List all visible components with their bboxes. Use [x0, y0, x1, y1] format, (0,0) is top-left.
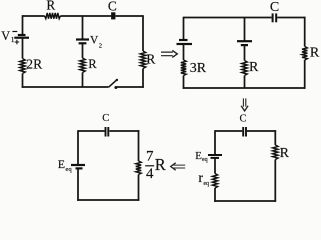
battery V2 [76, 38, 89, 40]
wire : circuit3 bottom [77, 199, 139, 201]
arrow implies (right) between circuit1 and circuit2 [161, 52, 173, 56]
wire : circuit3 right upper [138, 130, 140, 161]
arrow implies (down) below circuit2 [243, 98, 245, 106]
switch S (lever and contacts) [109, 80, 117, 87]
svg-text:eq: eq [65, 166, 72, 173]
wire : circuit2 top-right segment [277, 17, 305, 19]
wire : circuit2 right lower [304, 60, 306, 89]
resistor 7/4 R (circuit 3) [136, 161, 141, 175]
wire : circuit2 top-left segment [184, 17, 272, 19]
wire : circuit2 bottom [183, 87, 306, 89]
wire : circuit4 bottom [214, 200, 276, 202]
svg-text:4: 4 [146, 166, 154, 182]
battery Eeq (circuit 3) [71, 164, 85, 166]
wire : circuit3 right lower [138, 175, 140, 201]
svg-text:R: R [155, 155, 166, 174]
capacitor C (circuit 2) [272, 13, 274, 22]
wire : circuit1 middle mid [82, 43, 84, 58]
wire : circuit2 middle upper [244, 18, 246, 42]
battery E1 (circuit 2 left) [179, 39, 188, 41]
resistor R (right branch circuit 1) [140, 51, 145, 69]
wire : circuit3 left lower [77, 168, 79, 200]
wire : circuit2 right upper [304, 17, 306, 47]
wire : circuit4 left lower [214, 188, 216, 202]
svg-text:R: R [46, 0, 55, 13]
resistor R (circuit 4) [273, 145, 278, 160]
svg-text:2: 2 [99, 43, 102, 50]
wire : circuit1 right upper [142, 15, 144, 51]
wire : circuit1 left lower [22, 74, 24, 88]
svg-text:R: R [280, 146, 290, 161]
arrow implies (left) beside circuit 3 [173, 165, 185, 168]
svg-text:R: R [88, 57, 97, 71]
svg-text:V: V [1, 29, 10, 43]
battery E2 (circuit 2 middle) [237, 40, 252, 42]
wire : circuit1 left mid [22, 38, 24, 59]
wire : circuit2 left mid [183, 44, 185, 60]
wire : circuit1 top-left segment [23, 15, 45, 17]
resistor req (circuit 4) [212, 174, 217, 189]
svg-text:2R: 2R [26, 56, 43, 71]
svg-text:C: C [108, 0, 117, 13]
battery V1 [12, 31, 17, 33]
wire : circuit1 bottom-left segment [22, 86, 109, 88]
wire : circuit1 middle lower [82, 73, 84, 88]
wire : circuit3 top-right segment [109, 130, 139, 132]
wire : circuit1 left upper [22, 15, 24, 34]
svg-text:eq: eq [203, 181, 209, 187]
svg-text:eq: eq [202, 157, 208, 163]
resistor R (top of circuit 1) [45, 13, 61, 19]
svg-text:V: V [90, 35, 99, 47]
wire : circuit1 bottom-right segment [117, 86, 144, 88]
wire : circuit1 top-right segment [115, 15, 143, 17]
resistor 3R [181, 60, 186, 76]
wire : circuit4 left mid [214, 158, 216, 174]
wire : circuit2 middle lower [244, 76, 246, 89]
capacitor C (circuit 4) [242, 127, 244, 137]
wire : circuit1 right lower [142, 69, 144, 88]
battery Eeq (circuit 4) [208, 154, 222, 156]
svg-text:E: E [58, 157, 65, 171]
wire : circuit4 right lower [274, 160, 276, 202]
capacitor C (circuit 1, filled plates) [111, 12, 115, 19]
resistor R (middle branch circuit 2) [242, 61, 247, 76]
wire : circuit4 left upper [214, 130, 216, 155]
svg-text:7: 7 [146, 149, 154, 165]
wire : circuit4 right upper [274, 130, 276, 145]
wire : circuit4 top-left segment [215, 130, 242, 132]
svg-text:C: C [102, 113, 109, 124]
svg-text:C: C [239, 114, 246, 125]
wire : circuit1 top middle segment [61, 15, 112, 17]
svg-text:R: R [146, 52, 156, 67]
wire : circuit1 middle upper [82, 16, 84, 40]
svg-text:R: R [249, 60, 259, 75]
svg-text:R: R [310, 45, 320, 60]
wire : circuit2 middle mid [244, 45, 246, 60]
resistor 2R [20, 59, 25, 74]
resistor R (middle branch circuit 1) [80, 58, 85, 73]
resistor R (right branch circuit 2) [302, 47, 307, 61]
wire : circuit2 left lower [183, 76, 185, 89]
svg-text:1: 1 [11, 36, 15, 44]
capacitor C (circuit 3) [105, 127, 107, 137]
wire : circuit3 left upper [77, 130, 79, 165]
wire : circuit2 left upper [183, 17, 185, 40]
svg-text:C: C [270, 0, 279, 15]
wire : circuit4 top-right segment [247, 130, 276, 132]
svg-text:3R: 3R [190, 61, 207, 76]
wire : circuit3 top-left segment [78, 130, 105, 132]
